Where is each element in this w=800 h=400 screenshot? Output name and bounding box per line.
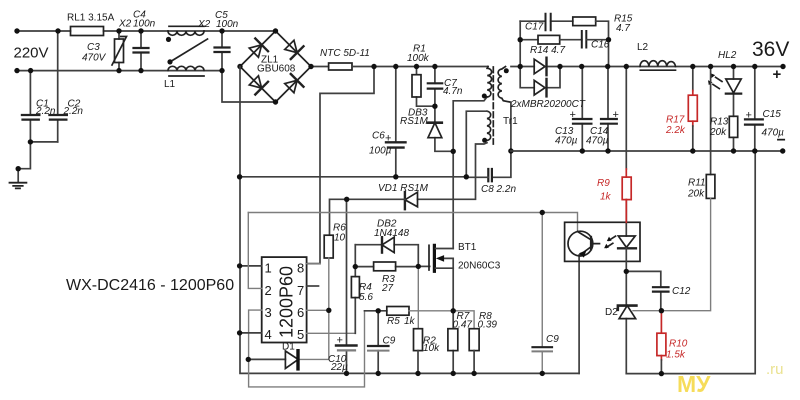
wire bridge minus vertical to primary ground and bottom bus [240, 67, 579, 374]
capacitor C4 [140, 31, 142, 71]
svg-text:RL1 3.15A: RL1 3.15A [67, 13, 115, 24]
svg-text:8: 8 [297, 261, 304, 276]
svg-text:2.2n: 2.2n [63, 106, 84, 117]
wire secondary top [511, 66, 783, 68]
resistor R8 [469, 329, 479, 351]
resistor R11 [710, 67, 712, 175]
svg-text:1.5k: 1.5k [666, 350, 686, 361]
svg-text:NTC 5D-11: NTC 5D-11 [320, 48, 370, 59]
svg-text:100n: 100n [133, 19, 156, 30]
wire top AC line [17, 30, 276, 32]
svg-text:R10: R10 [669, 339, 688, 350]
svg-text:5.6: 5.6 [359, 292, 373, 303]
svg-text:100µ: 100µ [369, 146, 392, 157]
svg-text:10: 10 [334, 233, 346, 244]
capacitor C16 [582, 31, 587, 48]
wire snubber left riser [519, 21, 521, 66]
wire pin2 riser from FB line [248, 213, 261, 289]
svg-text:X2: X2 [118, 19, 132, 30]
diode VD1 [404, 192, 406, 209]
svg-text:RS1M: RS1M [400, 116, 428, 127]
svg-text:C6: C6 [372, 131, 385, 142]
svg-text:+: + [613, 109, 619, 121]
svg-text:22µ: 22µ [330, 362, 348, 373]
svg-text:5: 5 [297, 327, 304, 342]
svg-text:L1: L1 [164, 79, 176, 90]
capacitor C13 [581, 67, 583, 152]
diode secondary lower parallel [520, 67, 560, 88]
resistor R14 [520, 39, 538, 41]
svg-text:4.7: 4.7 [616, 23, 630, 34]
wire pin5 line [307, 332, 356, 334]
svg-text:D2: D2 [605, 307, 618, 318]
svg-text:+: + [746, 110, 752, 122]
wire pin4 stub [240, 332, 262, 334]
bridge ZL1 GBU608 [240, 31, 311, 102]
svg-text:C12: C12 [672, 286, 691, 297]
capacitor C12 [626, 271, 661, 310]
capacitor C10 [346, 199, 348, 373]
diode secondary top [534, 59, 545, 74]
diode bridge TR [285, 40, 297, 52]
transformer Tr1 primary winding [487, 67, 491, 97]
optocoupler U2 box [565, 222, 640, 261]
svg-text:100k: 100k [407, 53, 430, 64]
optocoupler transistor [568, 231, 593, 256]
zener D2 [625, 271, 627, 373]
svg-text:R9: R9 [597, 178, 610, 189]
wire secondary ground bus [511, 150, 783, 152]
wire secondary rail [626, 151, 755, 374]
svg-text:+: + [385, 133, 391, 145]
wire pin1 stub [240, 265, 262, 267]
svg-text:20N60C3: 20N60C3 [458, 261, 501, 272]
svg-text:100n: 100n [216, 19, 239, 30]
wire D2 anode tap [633, 310, 661, 312]
node dots primary low side [237, 197, 477, 376]
wire pin3 riser and CS loop [249, 310, 365, 387]
svg-text:GBU608: GBU608 [257, 64, 296, 75]
svg-text:WX-DC2416 - 1200P60: WX-DC2416 - 1200P60 [66, 277, 234, 294]
svg-text:4.7n: 4.7n [443, 86, 463, 97]
diode DB2 [355, 245, 418, 267]
diode D1 [248, 358, 285, 360]
svg-text:2.2k: 2.2k [665, 125, 686, 136]
diode bridge TL [249, 45, 261, 57]
svg-text:R13: R13 [710, 117, 729, 128]
svg-text:20k: 20k [687, 189, 705, 200]
NTC [311, 66, 329, 68]
svg-text:C9: C9 [546, 334, 559, 345]
wire secondary return and C8 [492, 102, 511, 177]
capacitor C7 [434, 67, 436, 107]
svg-text:R17: R17 [666, 115, 685, 126]
svg-text:1N4148: 1N4148 [374, 228, 409, 239]
capacitor C17 [520, 20, 573, 22]
svg-text:+: + [570, 109, 576, 121]
svg-text:27: 27 [381, 283, 394, 294]
svg-text:C8 2.2n: C8 2.2n [481, 184, 516, 195]
capacitor C9 [377, 311, 379, 374]
svg-text:220V: 220V [14, 45, 49, 62]
wire aux top to primary ground [466, 111, 487, 177]
svg-text:1k: 1k [600, 192, 612, 203]
wire HV bus [352, 66, 488, 68]
transistor Q1 BT1 gate net [418, 265, 429, 267]
svg-text:20k: 20k [709, 127, 727, 138]
svg-text:C15: C15 [763, 109, 782, 120]
svg-text:R14 4.7: R14 4.7 [530, 45, 565, 56]
resistor R17 [692, 67, 694, 91]
svg-text:470µ: 470µ [586, 136, 609, 147]
capacitor C5 [221, 31, 223, 71]
wire pin8 stub [307, 263, 320, 265]
transformer core [492, 67, 494, 144]
svg-text:470V: 470V [82, 53, 107, 64]
svg-text:C9: C9 [383, 336, 396, 347]
svg-text:2: 2 [265, 283, 272, 298]
svg-text:1200P60: 1200P60 [277, 266, 297, 338]
capacitor C2 [57, 31, 59, 142]
wire bottom AC line [17, 71, 276, 102]
svg-text:D1: D1 [282, 342, 295, 353]
capacitor C1 [29, 71, 31, 142]
transformer aux winding [487, 111, 491, 140]
resistor R2 [414, 329, 423, 351]
capacitor C15 [754, 67, 756, 152]
ground [10, 183, 27, 189]
svg-text:0.47: 0.47 [453, 320, 473, 331]
diode bridge BR [285, 80, 297, 92]
svg-text:BT1: BT1 [458, 242, 477, 253]
svg-text:R5: R5 [387, 316, 400, 327]
svg-text:7: 7 [297, 283, 304, 298]
wire aux bottom to VD1 line [418, 143, 488, 200]
opto arrows [606, 236, 615, 247]
svg-text:L2: L2 [637, 42, 649, 53]
resistor R9 [625, 67, 627, 170]
wire opto emitter to primary bus [578, 255, 580, 373]
svg-text:Tr1: Tr1 [503, 116, 518, 127]
op-amp U1 : IC 1200P60 box [262, 257, 307, 342]
svg-text:2.2n: 2.2n [35, 106, 56, 117]
svg-text:−: − [777, 132, 786, 149]
wire pin7 stub NC [307, 285, 319, 287]
svg-text:+: + [337, 335, 343, 347]
capacitor C14 [607, 67, 609, 152]
svg-text:1k: 1k [404, 316, 416, 327]
svg-text:470µ: 470µ [555, 136, 578, 147]
wire pin6 stub [307, 309, 329, 311]
resistor R7 [452, 311, 454, 374]
node dots secondary [518, 37, 786, 376]
wire HV startup jog to pin8 [307, 67, 374, 264]
resistor R15 [573, 17, 596, 26]
LED HL2 [733, 67, 735, 152]
diode DB3 [435, 106, 453, 151]
svg-text:4: 4 [265, 327, 272, 342]
wire C1 C2 join to earth [18, 142, 58, 183]
capacitor C6 [395, 67, 397, 177]
wire FB line to opto collector [248, 213, 577, 232]
svg-text:HL2: HL2 [718, 50, 737, 61]
optocoupler LED [625, 200, 627, 236]
svg-text:1: 1 [265, 261, 272, 276]
node dots input [14, 28, 313, 144]
resistor R4 with riser to pin5 line [354, 245, 356, 334]
transformer secondary winding [498, 67, 511, 103]
wire primary ground bus [240, 176, 467, 178]
svg-text:.ru: .ru [766, 361, 784, 378]
resistor R3 [355, 266, 418, 268]
wire R6 bottom to D1 cathode riser [299, 258, 328, 359]
capacitor C8 [488, 169, 492, 181]
resistor R6 [324, 235, 333, 258]
choke L1 [169, 25, 204, 27]
svg-text:+: + [773, 66, 782, 83]
varistor C3 [118, 31, 120, 71]
svg-text:0.39: 0.39 [478, 320, 498, 331]
svg-text:6: 6 [297, 305, 304, 320]
fuse RL1 [71, 27, 104, 36]
svg-text:36V: 36V [752, 38, 789, 61]
inductor L2 [640, 61, 676, 67]
svg-text:3: 3 [265, 305, 272, 320]
resistor R10 [660, 311, 662, 360]
node dots HV [237, 64, 514, 180]
wire drain net [453, 97, 487, 249]
capacitor C9 second [541, 213, 543, 374]
svg-text:C3: C3 [87, 42, 100, 53]
svg-text:R11: R11 [688, 178, 706, 189]
svg-text:10k: 10k [423, 343, 440, 354]
diode bridge BL [249, 76, 261, 88]
resistor R5 and source node [365, 310, 387, 312]
svg-text:МУ: МУ [677, 371, 711, 397]
svg-text:C16: C16 [591, 40, 610, 51]
svg-text:VD1 RS1M: VD1 RS1M [378, 183, 429, 194]
resistor R1 [417, 67, 435, 107]
resistor R13 [729, 116, 737, 137]
svg-text:C17: C17 [525, 22, 544, 33]
svg-text:X2: X2 [197, 19, 211, 30]
